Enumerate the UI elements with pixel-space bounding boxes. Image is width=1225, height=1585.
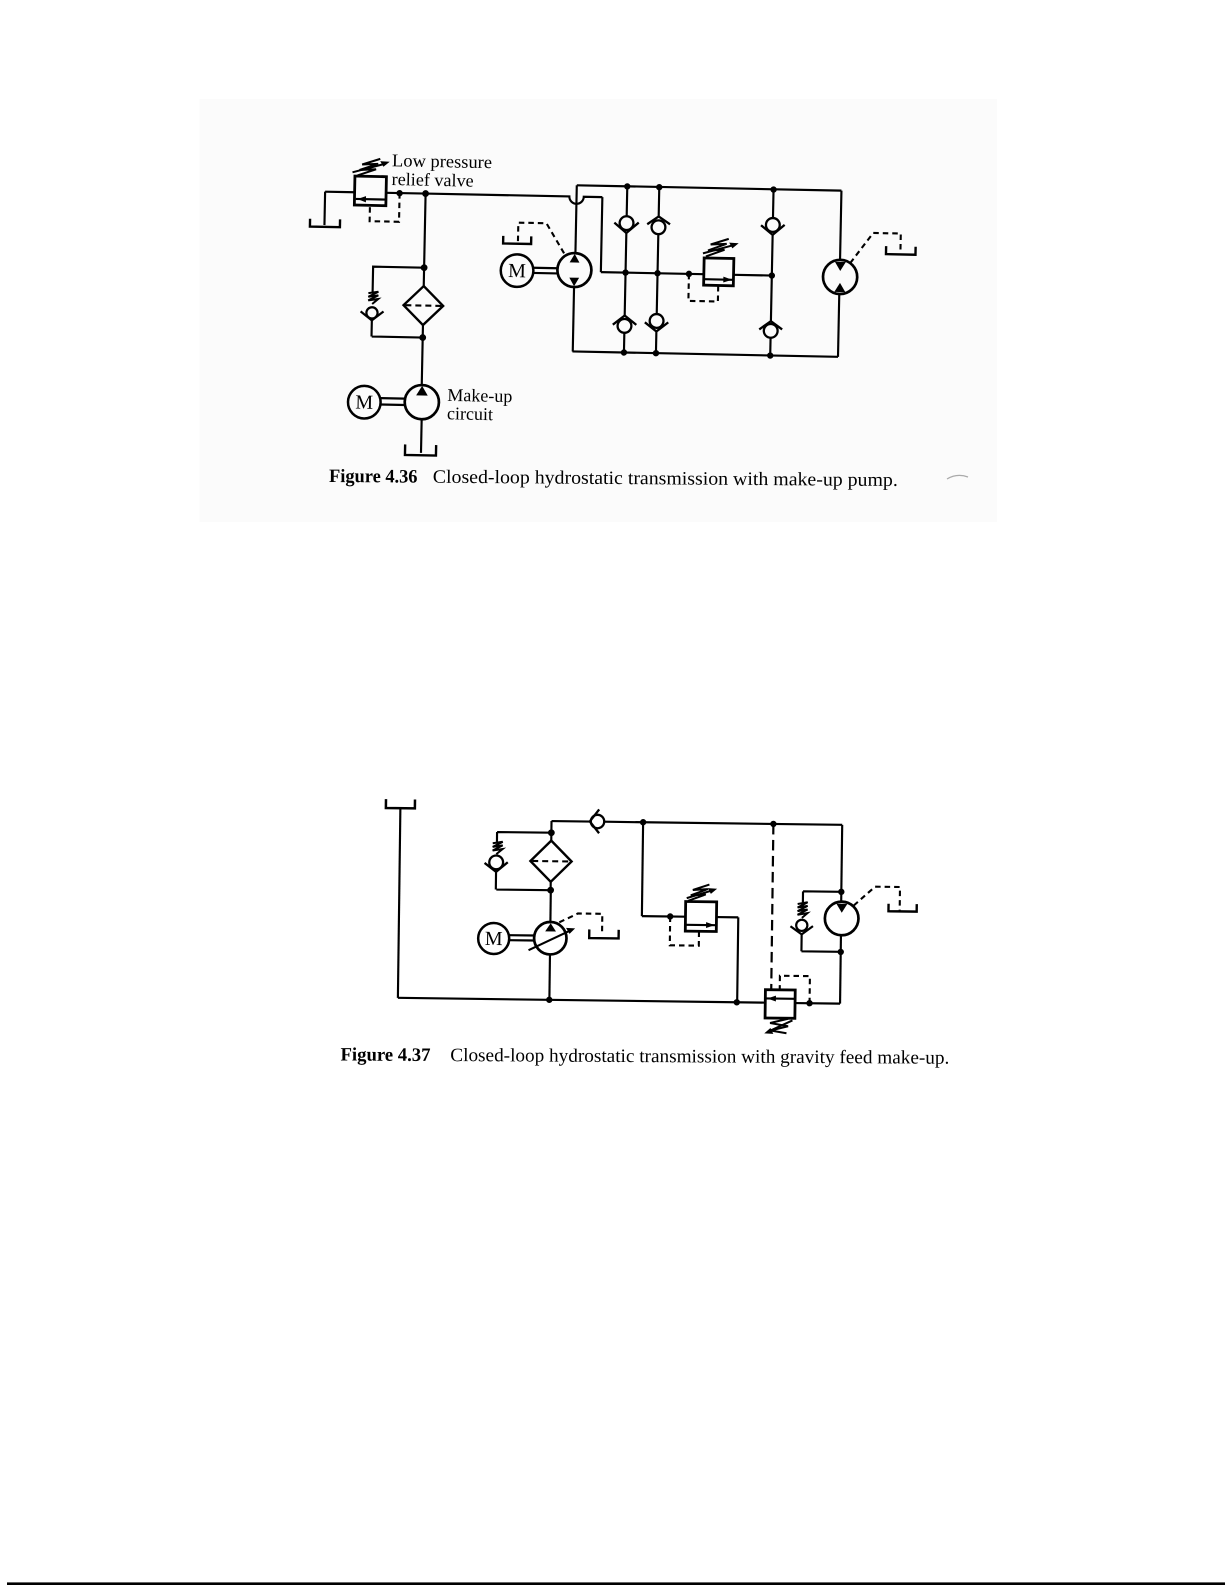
shaft M2-P2 [381,398,405,405]
wire: top line left segment [552,820,591,823]
node: top bus col2 [656,184,663,191]
svg-text:M: M [355,392,373,414]
wire: V3 left port [642,915,686,918]
spring of bypass check valve CV0 [368,292,378,305]
svg-text:M: M [508,260,526,282]
wire: filter bottom stub [550,882,552,890]
node: middle rail col2 [654,270,661,277]
relief valve V2 (cross-line) body [704,258,734,286]
label: Low pressure relief valve [391,150,492,191]
tank symbol for HM1 drain [886,246,916,255]
gravity tank symbol [386,799,415,808]
wire: col1 lower stub [624,273,627,316]
wire: V1 drain drop to tank [323,192,326,225]
node: middle rail col3 [769,272,776,279]
wire: col3 top stub [772,190,775,218]
wire: col3 lower stub [770,276,773,322]
wire: top bus [577,185,842,190]
wire: col1 to middle rail [624,233,627,273]
check valve CV1 ball [620,216,634,230]
hydraulic motor HM2 [825,901,859,935]
node: top line pump branch [640,819,646,825]
variable displacement pump P3 [528,922,575,955]
electric motor M3 [478,923,509,954]
node: top bus col3 [770,186,777,193]
node: filter top junction [421,264,428,271]
svg-text:relief valve: relief valve [391,169,473,191]
wire: gravity feed downpipe [398,808,400,998]
wire: V3 supply drop [642,822,643,916]
filter F1 (diamond) [403,286,443,326]
hydraulic motor HM1 [823,259,858,294]
shaft M1-P1 [533,268,557,274]
check valve CV9 ball [796,920,807,931]
wire: col3 to middle rail [771,235,774,276]
wire: bottom bus [572,351,838,356]
check valve CV3 seat [613,315,637,325]
pilot line (long dashed) from top line to V4 [771,824,773,990]
main pump P1 (bidirectional) [557,253,592,288]
wire: feed line with crossover hop to ladder [425,194,602,205]
node: middle rail pilot tap [686,271,693,278]
make-up pump P2 [404,385,439,420]
wire: col2 to middle rail [656,234,659,273]
wire: motor HM1 top riser [840,191,841,260]
wire: filter top stub [550,833,552,841]
node: filter bottom junction [547,887,554,894]
wire: pump P1 bottom drop [573,287,574,351]
check valve CV2 seat [647,216,670,224]
wire: pump P3 riser [549,890,552,922]
svg-text:circuit: circuit [447,403,493,424]
spring of relief valve V4 [764,1018,792,1034]
wire: col1 top stub [626,186,629,216]
pen smudge under caption [947,475,968,479]
check valve CV7 seat [590,809,600,833]
case drain (dashed) of HM1 [850,233,901,265]
wire: filter top corner riser [550,821,552,833]
shaft M3-P3 [509,935,534,940]
electric motor M1 [500,254,533,287]
pilot line (dashed) of V1 [370,193,400,222]
label: Make-up circuit [447,385,513,425]
node: V4 pilot tap junction [806,1000,812,1006]
wire: bottom bus right of valve V4 [795,1002,840,1005]
wire: ladder middle rail left segment [601,272,704,274]
check valve CV2 ball [651,220,665,234]
wire: right riser top line to motor [841,825,842,902]
node: bottom bus col1 [621,349,628,356]
wire: bypass loop bottom [496,872,551,890]
wire: make-up column upper [424,194,425,268]
wire: col2 to bottom bus [655,331,658,353]
check valve CV4 seat [645,322,669,332]
svg-text:Figure 4.37Closed-loop hydrost: Figure 4.37Closed-loop hydrostatic trans… [340,1045,949,1069]
check valve CV6 seat [759,321,782,330]
wire: P2 suction drop [420,419,423,453]
wire: bypass loop top [373,267,424,293]
scanned page area backdrop [200,99,997,522]
spring of relief valve V1 [352,158,389,176]
wire: filter top stub [423,268,426,286]
check valve CV7 ball [591,815,605,829]
check valve CV1 seat [614,222,639,233]
node: bottom bus col3 [767,352,774,359]
tank symbol at V1 drain [310,219,340,227]
check valve CV5 ball [766,218,780,232]
check valve CV0 ball [366,307,377,318]
wire: bottom bus left of valve V4 [398,998,765,1003]
node: bottom bus col2 [653,350,660,357]
tank symbol for HM2 drain [888,904,916,912]
wire: top line right segment [604,822,842,825]
relief valve V1 (low pressure relief valve) body [354,176,386,206]
wire: bypass loop bottom [372,320,424,337]
spring of relief valve V3 [687,884,718,901]
spring of relief valve V2 [703,238,739,257]
wire: col2 top stub [658,187,661,216]
svg-text:Figure 4.36Closed-loop hydrost: Figure 4.36Closed-loop hydrostatic trans… [329,466,898,491]
wire: make-up pump riser [421,338,424,386]
spring of check valve CV9 [797,902,807,918]
node: V3 return junction [734,999,740,1005]
wire: V3 right port and drop [715,917,738,1002]
wire: col3 to bottom bus [769,338,772,356]
node: pump return junction [546,997,552,1003]
bottom page rule [7,1582,1225,1585]
wire: col1 to bottom bus [623,333,626,353]
relief valve V3 body [685,901,716,931]
check valve CV9 seat [790,926,813,935]
node: pilot tap junction [396,190,403,197]
case drain (dashed) of HM2 [854,886,900,911]
pilot line (dashed) of V4 [780,976,810,1003]
node: motor HM2 top junction [838,889,844,895]
node: top bus col1 [624,183,631,190]
check valve CV4 ball [650,314,664,328]
relief valve V4 (make-up) body [765,990,795,1019]
electric motor M2 [348,386,381,419]
filter F2 (diamond) [530,840,572,882]
node: V3 pilot tap [667,913,673,919]
check valve CV8 seat [484,862,507,872]
check valve CV3 ball [617,319,631,333]
pilot line (dashed) of V2 [688,274,718,302]
wire: ladder middle rail right segment [734,274,772,277]
tank symbol below P2 [405,444,436,455]
wire: bypass loop top [497,832,551,843]
node: motor HM2 bottom junction [837,949,843,955]
node: filter top junction [548,829,555,836]
svg-text:M: M [485,928,503,950]
check valve CV5 seat [761,224,785,235]
node: filter bottom junction [419,334,426,341]
check valve CV0 seat [360,311,383,321]
wire: V1 right port to junction [386,192,425,195]
check valve CV6 ball [764,324,778,338]
case drain (dashed) of P1 [518,223,565,254]
wire: pump P1 top riser [575,185,576,253]
node: main make-up junction [422,190,429,197]
wire: check branch bottom [801,934,841,951]
wire: pump P3 bottom drop [548,954,551,999]
wire: check branch top [803,891,841,903]
case drain (dashed) of P3 [559,913,602,934]
wire: motor HM2 bottom drop [839,935,842,1003]
wire: filter bottom stub [422,325,424,337]
spring of bypass check valve CV8 [493,842,503,855]
wire: col2 lower stub [656,273,659,314]
node: top line pilot branch [770,821,776,827]
node: middle rail col1 [622,269,629,276]
check valve CV8 ball [489,855,503,869]
tank symbol for P1 drain [503,236,531,244]
wire: feed line drop [601,197,603,272]
wire: motor HM1 bottom drop [838,294,839,357]
wire: V1 left port [325,191,354,194]
tank symbol for P3 drain [589,929,619,938]
pilot line (dashed) of V3 [670,916,699,945]
